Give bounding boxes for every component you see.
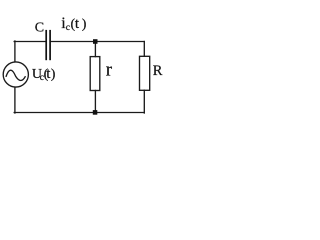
wire top horizontal left segment xyxy=(14,41,46,43)
wire left branch lower vertical xyxy=(14,87,16,113)
resistor R body xyxy=(140,56,150,90)
AC source U_c(t) circle xyxy=(3,62,28,87)
wire right branch upper vertical xyxy=(143,42,145,57)
capacitor C left plate xyxy=(45,30,47,60)
wire right branch lower vertical xyxy=(143,90,145,113)
svg-text:Uc(t): Uc(t) xyxy=(32,66,56,83)
wire bottom horizontal xyxy=(14,112,144,114)
node junction bottom (square dot) xyxy=(93,110,98,115)
AC source sine symbol xyxy=(6,70,26,80)
wire top horizontal right segment xyxy=(51,41,145,43)
capacitor C right plate xyxy=(49,30,51,60)
node junction top (square dot) xyxy=(93,39,98,44)
svg-text:C: C xyxy=(35,21,44,36)
wire middle branch lower vertical xyxy=(94,91,96,113)
svg-text:r: r xyxy=(106,60,113,81)
svg-text:R: R xyxy=(153,63,163,79)
wire middle branch upper vertical xyxy=(94,42,96,57)
resistor r body xyxy=(90,57,100,91)
svg-text:ic(t): ic(t) xyxy=(61,15,86,33)
wire left branch upper vertical xyxy=(14,41,16,62)
